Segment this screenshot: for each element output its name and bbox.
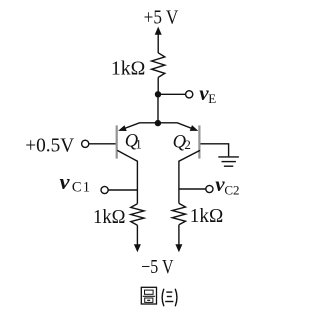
- wire vE node down to emitter junction: [157, 94, 159, 123]
- svg-text:1kΩ: 1kΩ: [190, 205, 224, 227]
- caption glyph middle bar: [143, 295, 155, 297]
- Q1 emitter arrow: [118, 125, 127, 131]
- +5V arrow: [157, 34, 159, 54]
- resistor RC1 1kOhm (left): [131, 204, 144, 225]
- wire RC2 to -5V arrow: [178, 225, 180, 246]
- emitter junction dot: [155, 120, 161, 126]
- caption glyph inner dot: [147, 300, 150, 301]
- svg-text:C2: C2: [224, 182, 239, 197]
- caption glyph inner bottom box: [145, 298, 153, 302]
- caption close paren: [175, 289, 177, 307]
- wire to vC1 terminal: [108, 189, 137, 191]
- transistor Q2 base bar: [198, 125, 200, 158]
- svg-text:−5 V: −5 V: [141, 256, 174, 278]
- transistor Q1 base bar: [116, 125, 118, 158]
- caption open paren: [162, 289, 164, 307]
- svg-text:C1: C1: [72, 180, 91, 196]
- svg-text:2: 2: [184, 137, 191, 152]
- wire Q1 base input: [89, 143, 116, 145]
- svg-text:1kΩ: 1kΩ: [93, 206, 126, 228]
- Q2 emitter arrow: [190, 125, 199, 131]
- terminal +0.5V circle: [82, 140, 89, 147]
- wire emitter bus right: [158, 123, 197, 130]
- svg-text:E: E: [208, 91, 216, 106]
- resistor RE 1kOhm (top): [152, 53, 165, 78]
- wire Q2 collector: [179, 150, 200, 203]
- ground symbol: [218, 157, 239, 166]
- terminal vC2 circle: [206, 185, 213, 192]
- wire emitter bus left: [120, 123, 158, 130]
- wire Q2 base to ground: [201, 144, 229, 157]
- svg-text:+0.5V: +0.5V: [25, 134, 75, 156]
- wire Q1 collector: [117, 150, 137, 203]
- svg-text:1kΩ: 1kΩ: [111, 58, 145, 80]
- wire RE bottom to node vE: [157, 77, 159, 94]
- terminal vE circle: [186, 91, 193, 98]
- svg-text:+5 V: +5 V: [144, 6, 179, 28]
- svg-text:1: 1: [135, 136, 142, 151]
- caption glyph three (bars): [165, 292, 173, 301]
- node vE junction dot: [155, 91, 161, 97]
- wire to vC2 terminal: [179, 188, 206, 190]
- svg-text:v: v: [60, 169, 71, 194]
- wire node to vE terminal: [158, 93, 186, 95]
- wire RC1 to -5V arrow: [136, 225, 138, 245]
- caption figure-3 glyph TU (outer box): [141, 287, 156, 304]
- caption glyph inner top box: [145, 290, 154, 294]
- terminal vC1 circle: [101, 186, 108, 193]
- resistor RC2 1kOhm (right): [172, 203, 185, 224]
